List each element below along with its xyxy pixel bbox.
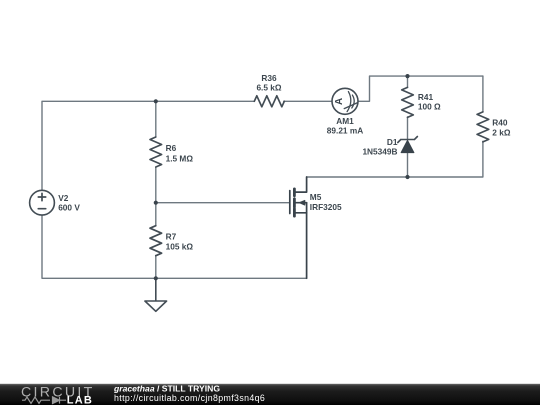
ammeter AM1 <box>332 88 358 114</box>
wire: V2 bottom lead and bottom rail <box>42 215 307 278</box>
svg-text:M5: M5 <box>310 192 322 202</box>
wire: R41 top lead from top rail junction <box>407 76 409 87</box>
svg-text:105 kΩ: 105 kΩ <box>166 242 194 252</box>
wire: top rail left segment from V2 top corner to R36 <box>42 101 254 190</box>
svg-text:R7: R7 <box>166 231 177 241</box>
node junction R6 / R7 / gate <box>154 201 158 205</box>
svg-text:600 V: 600 V <box>58 203 80 213</box>
ground <box>145 278 167 311</box>
svg-text:R6: R6 <box>166 143 177 153</box>
resistor R40 <box>477 112 489 142</box>
svg-text:A: A <box>334 98 345 105</box>
svg-text:6.5 kΩ: 6.5 kΩ <box>256 83 281 93</box>
wire: gate wire from R6/R7 junction to M5 <box>156 202 290 204</box>
svg-text:89.21 mA: 89.21 mA <box>327 126 363 136</box>
wire: R6 top lead <box>155 101 157 137</box>
wire: R7 bottom lead <box>155 255 157 278</box>
svg-text:1.5 MΩ: 1.5 MΩ <box>166 153 194 163</box>
svg-text:AM1: AM1 <box>336 116 354 126</box>
wire: D1 bottom lead to mid rail <box>407 153 409 178</box>
node junction mid rail / D1 <box>405 175 409 179</box>
voltage source V2 <box>30 190 55 215</box>
resistor R41 <box>402 87 414 117</box>
wire: R36 right lead to ammeter <box>284 100 332 102</box>
svg-text:R40: R40 <box>492 118 508 128</box>
wire: right rail R40 bottom lead down to mid rail <box>307 141 483 177</box>
wire: R41 bottom lead to D1 <box>407 117 409 140</box>
node junction bottom rail / ground <box>154 276 158 280</box>
svg-text:IRF3205: IRF3205 <box>310 202 342 212</box>
svg-text:100 Ω: 100 Ω <box>418 102 441 112</box>
svg-text:R36: R36 <box>261 73 277 83</box>
svg-text:2 kΩ: 2 kΩ <box>492 128 511 138</box>
node junction top-right rail / R41 <box>405 74 409 78</box>
resistor R7 <box>150 226 162 256</box>
node junction top rail / R6 <box>154 99 158 103</box>
svg-text:V2: V2 <box>58 193 69 203</box>
wire: right rail R40 top lead <box>482 76 484 112</box>
svg-text:1N5349B: 1N5349B <box>362 147 397 157</box>
wire: ammeter right, up and across top-right rail <box>358 76 483 101</box>
svg-text:http://circuitlab.com/cjn8pmf3: http://circuitlab.com/cjn8pmf3sn4q6 <box>114 393 265 403</box>
zener diode D1 <box>398 137 418 153</box>
footer bar <box>0 384 540 405</box>
resistor R36 <box>254 96 284 107</box>
resistor R6 <box>150 137 162 167</box>
svg-text:LAB: LAB <box>67 394 93 405</box>
CircuitLab logo resistor-diode glyph <box>22 397 66 404</box>
svg-text:R41: R41 <box>418 92 434 102</box>
wire: R6 bottom lead to R7 top lead <box>155 168 157 226</box>
MOSFET M5 <box>290 177 307 278</box>
